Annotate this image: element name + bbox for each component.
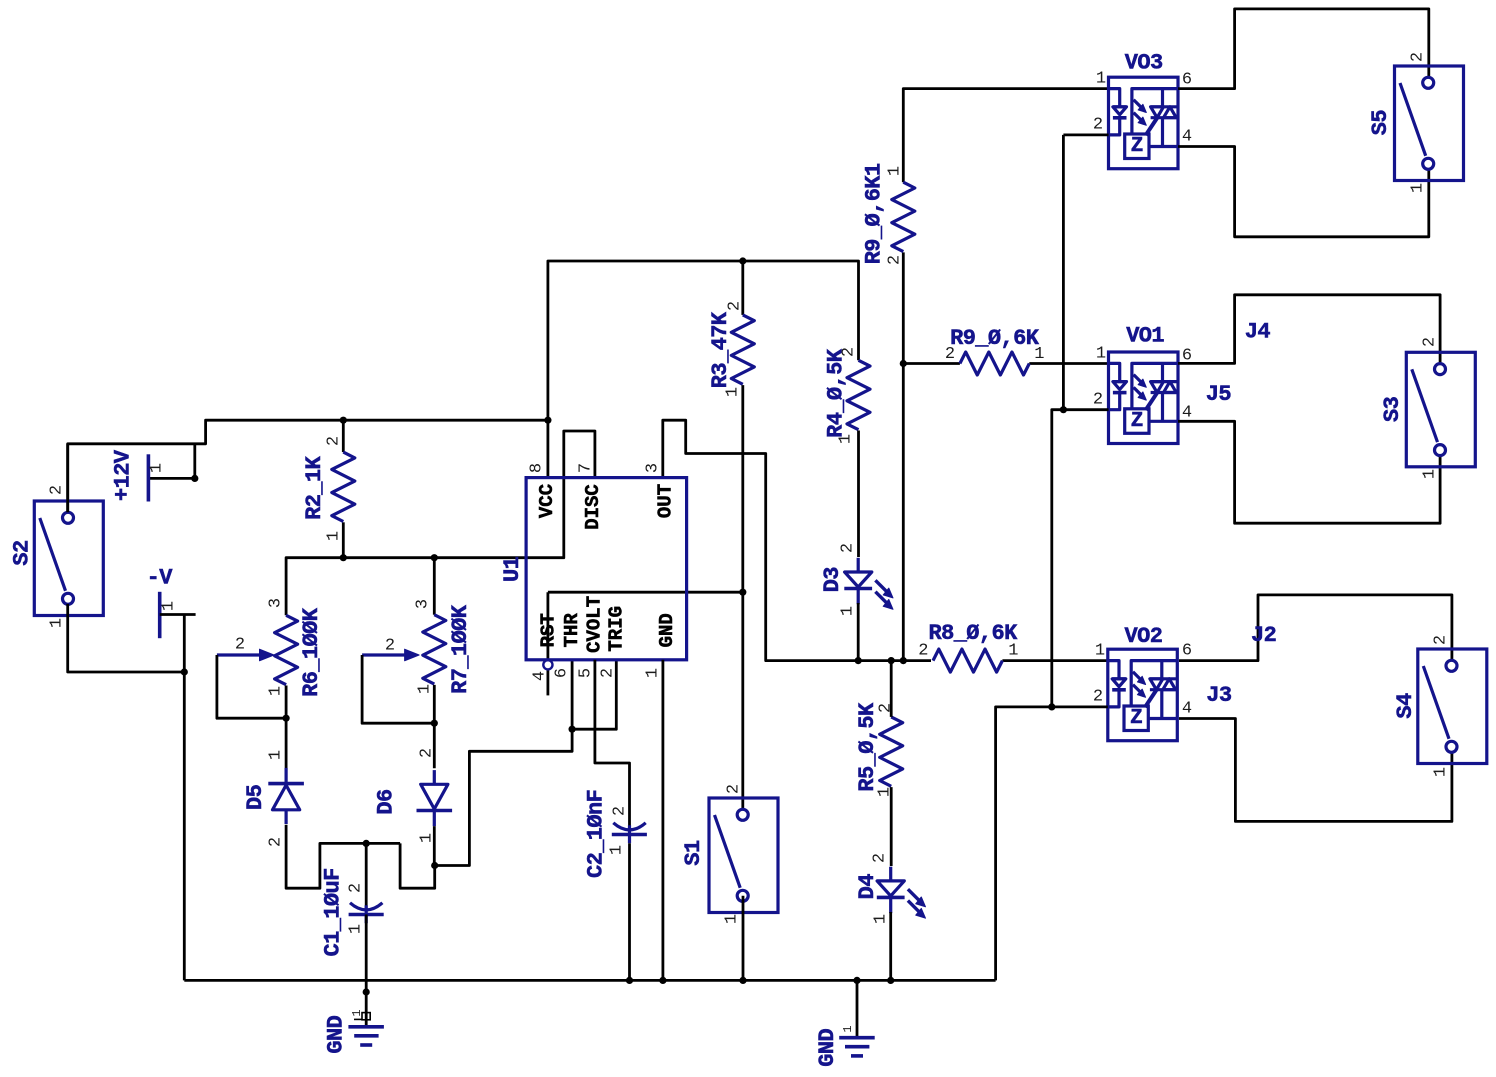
svg-text:S2: S2 (10, 540, 35, 565)
svg-text:J4: J4 (1245, 320, 1271, 345)
potentiometer R6_100K (217, 598, 324, 697)
svg-text:RST: RST (537, 613, 559, 647)
wire D4 to GND rail (889, 912, 892, 980)
svg-text:R7_1ØØK: R7_1ØØK (448, 604, 473, 694)
LED D4 (855, 853, 926, 924)
svg-text:1: 1 (347, 924, 366, 934)
wire DISC net (R2 bottom / R6 / R7 / pin7) (286, 431, 595, 615)
svg-text:OUT: OUT (655, 484, 677, 518)
junction C1 pin2 (363, 840, 370, 847)
svg-text:D6: D6 (374, 789, 399, 814)
svg-text:C2_1ØnF: C2_1ØnF (584, 790, 609, 878)
switch S1 (681, 784, 778, 924)
svg-text:8: 8 (528, 463, 547, 473)
wire +12V net (S2 pin2 to VCC rail) (68, 261, 859, 512)
svg-text:2: 2 (840, 347, 859, 357)
junction R9_0,6K pin2 (900, 360, 907, 367)
svg-text:1: 1 (841, 1025, 855, 1032)
svg-text:1: 1 (148, 463, 167, 473)
U1 pin CVOLT (577, 596, 606, 678)
svg-text:1: 1 (325, 531, 344, 541)
svg-text:R4_Ø,5K: R4_Ø,5K (824, 348, 849, 438)
svg-text:S4: S4 (1393, 693, 1418, 719)
junction R2 pin2 (340, 417, 347, 424)
wire J loop VO3/S5 bottom (1178, 147, 1429, 237)
junction R5 pin2 (888, 657, 895, 664)
svg-text:2: 2 (1421, 337, 1440, 347)
svg-text:D5: D5 (243, 784, 268, 810)
wire GND bottom rail (184, 979, 995, 982)
wire R5 to D4 (890, 661, 893, 866)
U1 pin VCC (528, 463, 558, 518)
svg-text:S1: S1 (681, 840, 706, 866)
wire S2 pin2 (66, 444, 69, 513)
svg-text:6: 6 (553, 668, 572, 678)
svg-text:U1: U1 (500, 556, 525, 582)
wire S2 pin1 to -V node (68, 604, 185, 672)
node J3 label (1206, 683, 1232, 708)
svg-text:2: 2 (599, 668, 618, 678)
svg-text:VO1: VO1 (1126, 324, 1164, 349)
wire J loop VO3/S5 top, node J-S5 (1178, 9, 1429, 89)
svg-text:DISC: DISC (582, 484, 604, 530)
svg-text:VO3: VO3 (1125, 51, 1163, 76)
svg-text:TRIG: TRIG (606, 606, 628, 652)
switch S4 (1393, 635, 1487, 777)
svg-text:1: 1 (48, 618, 67, 628)
junction R6 pin1 (283, 715, 290, 722)
svg-text:1: 1 (350, 1009, 364, 1016)
resistor R8_0,6K (918, 621, 1018, 672)
U1 pin OUT (644, 463, 677, 518)
wire J2 loop (VO2 pin6 to S4 pin2) (1179, 595, 1452, 661)
resistor R9_0,6K1 (861, 163, 914, 265)
wire THR/TRIG net (435, 660, 617, 866)
svg-text:THR: THR (561, 613, 583, 648)
svg-text:1: 1 (1034, 345, 1044, 364)
svg-text:2: 2 (611, 806, 630, 816)
svg-text:2: 2 (1093, 391, 1103, 410)
svg-text:4: 4 (1182, 700, 1192, 719)
svg-text:1: 1 (723, 914, 742, 924)
svg-text:GND: GND (815, 1029, 840, 1067)
svg-text:2: 2 (885, 255, 904, 265)
svg-text:1: 1 (1095, 642, 1105, 661)
svg-text:2: 2 (1093, 116, 1103, 135)
wire -V to GND rail riser (183, 672, 186, 980)
svg-text:D4: D4 (855, 874, 880, 900)
wire J5 loop (VO1 pin4 to S3 pin1) (1178, 421, 1440, 523)
wire R6 pin1 to D5 (285, 686, 288, 769)
wire J3 loop (VO2 pin4 to S4 pin1) (1179, 719, 1452, 822)
junction U1 GND rail (659, 977, 666, 984)
svg-text:1: 1 (1409, 183, 1428, 193)
op-amp U1 555 timer box (500, 478, 687, 660)
svg-text:2: 2 (1093, 688, 1103, 707)
svg-text:CVOLT: CVOLT (583, 596, 605, 653)
node J2 label (1251, 623, 1276, 648)
wire R6 wiper loop (217, 655, 286, 718)
node J5 label (1206, 382, 1232, 407)
svg-text:6: 6 (1182, 71, 1192, 90)
svg-text:3: 3 (267, 598, 286, 608)
svg-text:1: 1 (837, 434, 856, 444)
svg-text:2: 2 (726, 301, 745, 311)
svg-text:2: 2 (347, 883, 366, 893)
svg-text:1: 1 (267, 750, 286, 760)
wire R7 pin1 to D6 (433, 685, 436, 768)
svg-text:2: 2 (418, 748, 437, 758)
junction VCC pin8 (544, 417, 551, 424)
optocoupler VO3 (1093, 51, 1192, 169)
svg-text:R6_1ØØK: R6_1ØØK (299, 607, 324, 697)
resistor R5_0,5K (855, 702, 903, 797)
capacitor C2_10nF (584, 790, 647, 878)
junction VO1 pin2 (1060, 406, 1067, 413)
optocoupler VO1 (1093, 324, 1192, 444)
junction D4 rail (887, 977, 894, 984)
U1 pin DISC (577, 463, 604, 530)
resistor R2_1K (302, 436, 355, 541)
svg-text:7: 7 (577, 463, 596, 473)
svg-text:2: 2 (1432, 635, 1451, 645)
wire D5 pin2 to C1 node (286, 825, 400, 888)
resistor R9_0,6K (945, 326, 1045, 375)
svg-text:J5: J5 (1206, 382, 1232, 407)
svg-text:5: 5 (577, 668, 596, 678)
wire RST net (R3 bottom / S1) (548, 385, 743, 809)
svg-text:S5: S5 (1368, 110, 1393, 136)
junction R7 pin3 (431, 554, 438, 561)
diode D6 (374, 748, 453, 843)
wire CVOLT to C2 (595, 660, 630, 829)
svg-text:R5_Ø,5K: R5_Ø,5K (855, 702, 880, 792)
svg-text:C1_1ØuF: C1_1ØuF (320, 868, 345, 956)
svg-text:R9_Ø,6K: R9_Ø,6K (950, 326, 1040, 351)
junction VO2 pin2 (1048, 703, 1055, 710)
svg-text:4: 4 (1182, 128, 1192, 147)
svg-text:2: 2 (48, 485, 67, 495)
svg-text:4: 4 (1182, 404, 1192, 423)
potentiometer R7_100K (362, 599, 473, 694)
svg-text:J3: J3 (1206, 683, 1232, 708)
wire J4 loop (VO1 pin6 to S3 pin2) (1178, 295, 1440, 364)
svg-text:J2: J2 (1251, 623, 1276, 648)
svg-text:1: 1 (1432, 767, 1451, 777)
svg-text:2: 2 (267, 837, 286, 847)
supply -V (147, 566, 196, 673)
svg-text:Z: Z (1131, 135, 1143, 158)
svg-text:1: 1 (1421, 469, 1440, 479)
svg-text:4: 4 (531, 671, 550, 681)
U1 pin TRIG (599, 606, 628, 678)
svg-text:2: 2 (385, 637, 395, 656)
svg-text:3: 3 (644, 463, 663, 473)
junction +12V pin (191, 475, 198, 482)
svg-text:1: 1 (416, 684, 435, 694)
svg-text:2: 2 (1409, 52, 1428, 62)
switch S5 (1368, 52, 1463, 193)
U1 pin RST inversion bubble (531, 613, 560, 681)
svg-text:1: 1 (724, 387, 743, 397)
optocoupler VO2 (1093, 624, 1192, 741)
junction D3 pin1 (855, 657, 862, 664)
ground GND middle (815, 980, 875, 1066)
diode D5 (243, 750, 304, 847)
svg-text:2: 2 (877, 703, 896, 713)
junction D6 pin1 (431, 862, 438, 869)
wire R9_0,6K1 net (VO3 pin1) (903, 89, 1108, 661)
junction R2 pin1 (340, 554, 347, 561)
svg-text:2: 2 (725, 784, 744, 794)
svg-text:2: 2 (918, 642, 928, 661)
switch S3 (1380, 337, 1475, 479)
wire U1 GND pin to rail (662, 660, 665, 981)
wire R4 to D3 (857, 431, 860, 558)
junction GND symbol rail (853, 977, 860, 984)
svg-text:Z: Z (1131, 410, 1143, 433)
resistor R4_0,5K (824, 347, 871, 444)
svg-text:2: 2 (325, 436, 344, 446)
U1 pin THR (553, 613, 584, 678)
svg-text:1: 1 (267, 686, 286, 696)
wire R9_0,6K net (to VO1 pin1) (903, 362, 1108, 365)
svg-text:1: 1 (1008, 642, 1018, 661)
resistor R3_47K (708, 301, 754, 397)
svg-text:1: 1 (872, 914, 891, 924)
U1 pin GND (644, 613, 679, 678)
svg-text:S3: S3 (1380, 396, 1405, 422)
svg-text:2: 2 (871, 853, 890, 863)
svg-text:GND: GND (324, 1015, 349, 1053)
wire S1 pin1 to rail (742, 896, 745, 981)
svg-text:1: 1 (839, 606, 858, 616)
junction S1 rail (739, 977, 746, 984)
wire C2 to rail (628, 843, 631, 980)
svg-text:1: 1 (160, 601, 179, 611)
svg-text:2: 2 (839, 543, 858, 553)
svg-text:1: 1 (1096, 70, 1106, 89)
svg-text:VCC: VCC (536, 484, 558, 518)
wire D6 pin1 node (400, 826, 435, 888)
svg-text:1: 1 (644, 668, 663, 678)
supply +12V (110, 449, 166, 501)
junction R9_0,6K1 pin2 (900, 657, 907, 664)
svg-text:GND: GND (656, 613, 678, 647)
switch S2 (10, 485, 104, 628)
svg-text:R9_Ø,6K1: R9_Ø,6K1 (861, 163, 886, 264)
capacitor C1_10uF (320, 843, 383, 1026)
svg-text:R8_Ø,6K: R8_Ø,6K (928, 621, 1018, 646)
node J4 label (1245, 320, 1271, 345)
svg-text:1: 1 (1096, 345, 1106, 364)
svg-text:R3_47K: R3_47K (708, 311, 733, 388)
junction C1/GND (363, 988, 370, 995)
junction R3 pin2 (739, 257, 746, 264)
svg-text:6: 6 (1182, 642, 1192, 661)
wire VO pin2 chain (VO3/VO1/VO2) (996, 135, 1109, 981)
svg-text:2: 2 (235, 636, 245, 655)
svg-text:-V: -V (147, 566, 174, 591)
junction THR/TRIG (569, 726, 576, 733)
wire D3 to rail (857, 603, 860, 661)
ground GND left (324, 1009, 384, 1053)
svg-text:3: 3 (414, 599, 433, 609)
svg-text:1: 1 (885, 166, 904, 176)
svg-text:D3: D3 (820, 567, 845, 593)
junction R7 pin1 (431, 720, 438, 727)
svg-text:+12V: +12V (110, 449, 135, 501)
svg-text:2: 2 (945, 345, 955, 364)
wire R7 wiper loop (362, 655, 434, 723)
wire OUT net (pin3 to D3/R5/R8 rail) (663, 420, 1109, 660)
svg-text:1: 1 (608, 845, 627, 855)
svg-text:R2_1K: R2_1K (302, 455, 327, 519)
junction -V node (181, 668, 188, 675)
svg-text:VO2: VO2 (1124, 624, 1162, 649)
junction RST node (739, 589, 746, 596)
LED D3 (820, 543, 893, 616)
junction C2 rail (626, 977, 633, 984)
svg-text:Z: Z (1130, 707, 1142, 730)
